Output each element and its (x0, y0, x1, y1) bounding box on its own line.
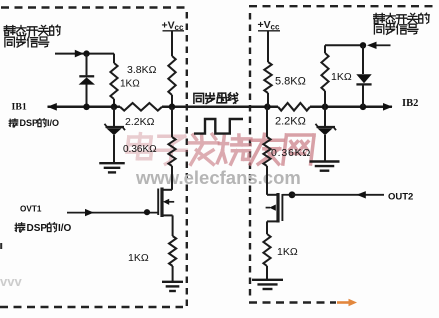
svg-text:www.elecfans.com: www.elecfans.com (135, 167, 301, 188)
svg-text:IB1: IB1 (12, 102, 27, 113)
svg-text:2.2KΩ: 2.2KΩ (275, 116, 306, 128)
svg-text:0.36KΩ: 0.36KΩ (271, 147, 311, 159)
svg-text:DSP: DSP (20, 118, 39, 128)
svg-text:DSP: DSP (27, 223, 48, 234)
svg-text:1KΩ: 1KΩ (120, 79, 140, 90)
svg-text:1KΩ: 1KΩ (277, 246, 298, 258)
svg-text:1KΩ: 1KΩ (128, 252, 149, 264)
svg-text:1KΩ: 1KΩ (331, 71, 352, 83)
svg-text:IB2: IB2 (402, 98, 418, 109)
svg-text:3.8KΩ: 3.8KΩ (127, 64, 157, 76)
svg-text:vvv: vvv (0, 274, 22, 289)
svg-text:OUT2: OUT2 (388, 192, 413, 203)
svg-text:2.2KΩ: 2.2KΩ (125, 116, 155, 128)
svg-text:0.36KΩ: 0.36KΩ (123, 144, 157, 155)
svg-text:5.8KΩ: 5.8KΩ (275, 76, 306, 88)
svg-text:+V: +V (162, 20, 175, 32)
svg-text:+V: +V (258, 19, 271, 31)
svg-text:I/O: I/O (47, 118, 59, 128)
svg-text:OVT1: OVT1 (20, 205, 42, 214)
svg-text:I/O: I/O (58, 223, 72, 234)
